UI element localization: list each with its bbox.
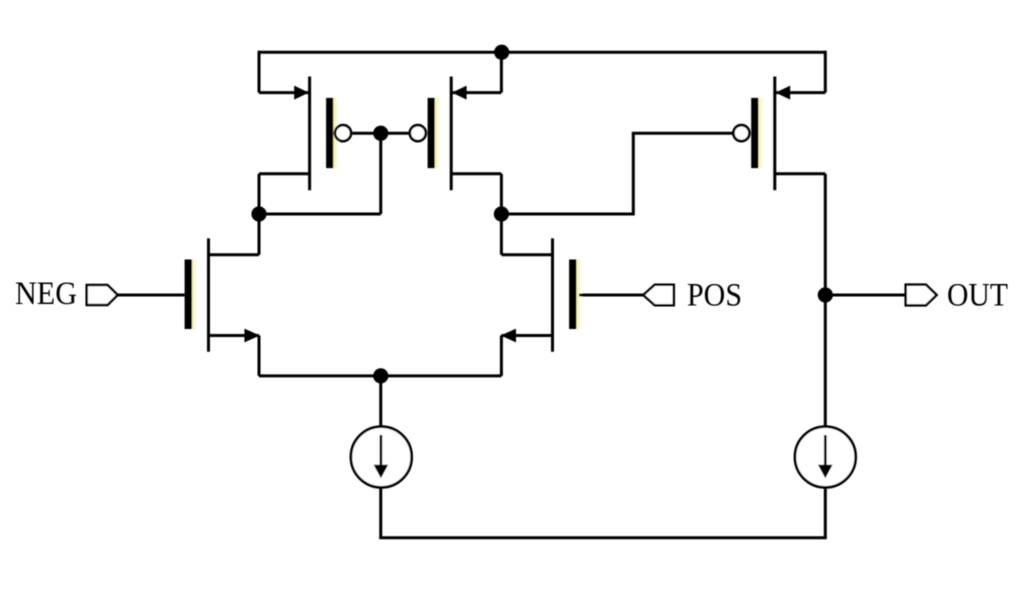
current source tail bias: [351, 427, 412, 488]
nmos left input device: [185, 238, 260, 351]
wire stage1 output to riser: [501, 213, 633, 216]
wire mirror gates down: [379, 133, 382, 214]
wire NEG to M1 gate: [118, 294, 185, 297]
wire M1 drain up: [258, 214, 261, 255]
node top rail junction: [494, 45, 509, 60]
wire M1 source down: [258, 336, 261, 376]
wire M5 gate riser: [632, 133, 635, 215]
port POS pin symbol: [643, 285, 674, 306]
wire M4 source drop: [500, 52, 503, 92]
wire diode node horizontal: [259, 213, 381, 216]
wire M2 source down: [500, 336, 503, 376]
wire bottom rail: [379, 536, 827, 539]
wire M2 gate to POS: [579, 294, 643, 297]
wire below tail current source: [379, 487, 382, 538]
pmos left current mirror device: [259, 77, 381, 191]
wire M3 drain down: [258, 174, 261, 214]
wire tail down to current source: [379, 376, 382, 428]
wire top rail VDD: [259, 51, 825, 54]
wire out node down to current source: [824, 295, 827, 428]
wire M4 drain down: [500, 174, 503, 214]
wire M5 source drop: [824, 51, 827, 93]
wire M2 drain up: [500, 214, 503, 255]
wire M5 gate horizontal: [632, 132, 733, 135]
wire M3 source drop: [258, 51, 261, 93]
pmos output device: [733, 77, 825, 191]
node mirror gates junction: [373, 126, 388, 141]
port NEG pin symbol: [87, 285, 118, 305]
current source output bias: [795, 427, 856, 488]
svg-text:POS: POS: [687, 277, 742, 313]
node out junction: [818, 287, 833, 302]
node first stage output: [494, 206, 509, 221]
wire out node to OUT port: [825, 294, 905, 297]
pmos right current mirror device: [381, 77, 502, 191]
wire below output current source: [824, 487, 827, 538]
nmos right input device: [501, 238, 582, 351]
svg-text:NEG: NEG: [15, 276, 77, 312]
node tail junction: [373, 368, 388, 383]
wire M5 drain to out node: [824, 174, 827, 295]
svg-text:OUT: OUT: [947, 277, 1008, 313]
wire tail rail: [259, 374, 501, 377]
port OUT pin symbol: [906, 285, 937, 306]
node left mirror diode node: [251, 206, 266, 221]
